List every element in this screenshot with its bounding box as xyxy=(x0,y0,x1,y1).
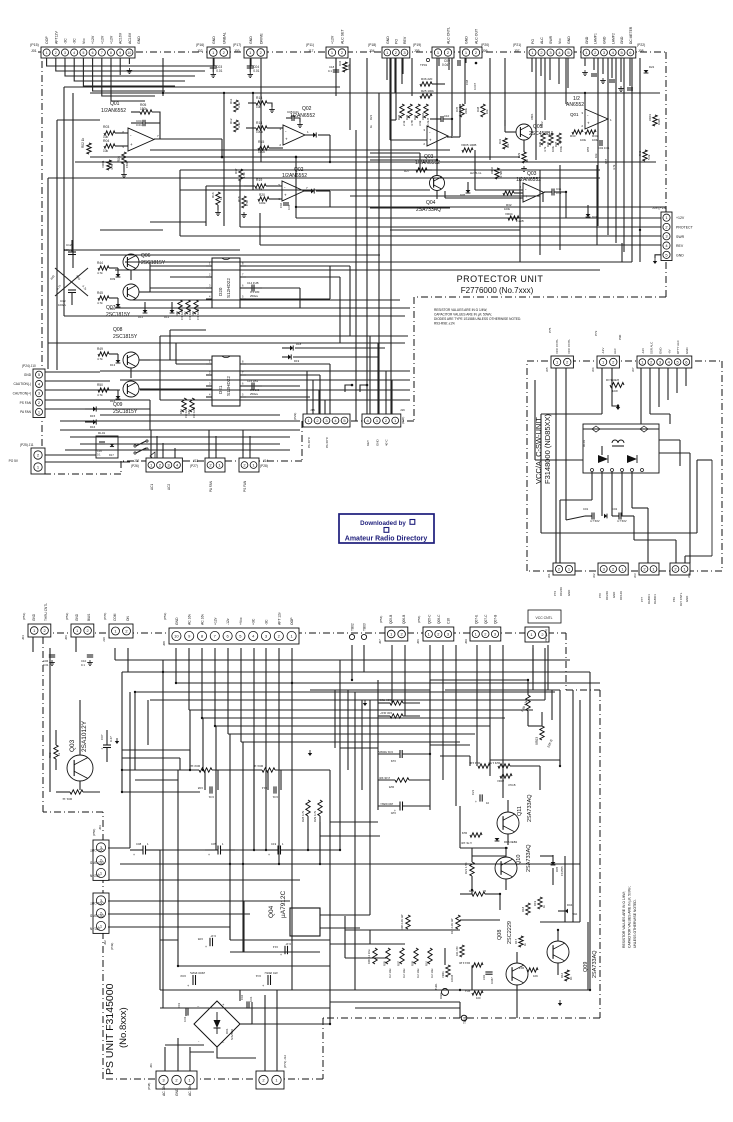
svg-text:1: 1 xyxy=(46,51,48,55)
svg-text:C19: C19 xyxy=(271,842,277,846)
svg-text:THRU CNTL: THRU CNTL xyxy=(44,603,48,621)
svg-text:C01: C01 xyxy=(583,507,589,511)
svg-text:RL8001: RL8001 xyxy=(647,594,651,604)
transistor Q09 2SC1815Y xyxy=(113,381,150,415)
connector J08 (P22) xyxy=(581,26,645,58)
thermistor TH01 D02A xyxy=(434,983,449,999)
op-amp Q02 1/2AN6552 lower xyxy=(278,167,308,201)
svg-text:160wv: 160wv xyxy=(64,248,73,252)
svg-text:GND: GND xyxy=(75,613,79,621)
svg-text:0.01 500Wv: 0.01 500Wv xyxy=(377,750,393,754)
capacitor C21 10 xyxy=(471,789,490,805)
svg-text:REV: REV xyxy=(403,36,407,44)
svg-text:C10: C10 xyxy=(444,114,450,118)
svg-text:R08 2.2K 1W: R08 2.2K 1W xyxy=(400,914,404,930)
svg-text:GND: GND xyxy=(585,36,589,44)
svg-text:(P30): (P30) xyxy=(401,417,405,424)
svg-text:0.047: 0.047 xyxy=(473,83,477,90)
svg-text:Q07-B: Q07-B xyxy=(494,615,498,624)
svg-text:40°C: 40°C xyxy=(385,438,389,446)
capacitor C05b 0.47 xyxy=(197,934,216,949)
svg-text:PA 60°C: PA 60°C xyxy=(325,436,329,448)
svg-text:(P54): (P54) xyxy=(379,616,383,623)
svg-text:0.2 10w: 0.2 10w xyxy=(388,969,392,978)
resistor R12 3.3k xyxy=(229,118,241,132)
ground arrow in vcc unit xyxy=(616,404,620,410)
additional ps vertical wires xyxy=(180,690,588,990)
wire Q01 output xyxy=(154,139,223,158)
svg-text:4.7B: 4.7B xyxy=(410,120,414,126)
resistor R13 2.2K xyxy=(459,961,483,967)
svg-text:Q07-C: Q07-C xyxy=(484,614,488,624)
resistor R36 220 xyxy=(420,77,445,86)
transistor Q03 2SA1012Y xyxy=(67,700,93,790)
capacitor C04 0.01 feedback xyxy=(131,119,160,127)
resistor R01 1k xyxy=(56,790,100,801)
resistor R19 1k xyxy=(533,897,546,909)
svg-text:GND: GND xyxy=(603,36,607,44)
svg-text:0.47: 0.47 xyxy=(109,736,113,742)
wires around J10 J11 xyxy=(45,372,300,462)
svg-text:J01: J01 xyxy=(149,1063,153,1068)
resistor R22 4.7K 1W xyxy=(461,831,482,845)
svg-text:R15: R15 xyxy=(518,966,524,970)
wires middle band xyxy=(48,266,410,400)
svg-text:AC2: AC2 xyxy=(167,484,171,490)
svg-text:(P56): (P56) xyxy=(417,616,421,623)
svg-text:Q06: Q06 xyxy=(141,253,151,259)
svg-text:P75: P75 xyxy=(548,327,552,333)
svg-text:150k: 150k xyxy=(140,107,147,111)
svg-text:GND: GND xyxy=(24,373,32,377)
svg-text:+: + xyxy=(205,945,207,949)
svg-text:Q03: Q03 xyxy=(69,739,76,752)
resistor R06 150k to ground xyxy=(117,152,129,177)
svg-text:100wv: 100wv xyxy=(58,303,67,307)
svg-text:Q08-C: Q08-C xyxy=(437,614,441,624)
svg-text:J04: J04 xyxy=(21,635,25,640)
diode D10 xyxy=(110,298,120,311)
svg-text:PROTECTOR UNIT: PROTECTOR UNIT xyxy=(457,274,544,284)
svg-text:Q01-OUT: Q01-OUT xyxy=(90,901,104,905)
svg-text:VR04: VR04 xyxy=(505,212,513,216)
svg-text:0.1: 0.1 xyxy=(328,69,332,73)
connector J02 (P16) xyxy=(196,32,230,58)
svg-text:R29 4.7k: R29 4.7k xyxy=(313,810,317,822)
svg-text:10k: 10k xyxy=(594,153,598,158)
svg-text:R38: R38 xyxy=(476,106,480,112)
resistor R20 100k xyxy=(258,193,282,205)
svg-text:LAMP1: LAMP1 xyxy=(594,33,598,44)
resistor cluster R22-R24 VR02 VR03 near x405 xyxy=(397,104,430,126)
svg-text:+: + xyxy=(394,809,396,813)
svg-text:1/2AN6552: 1/2AN6552 xyxy=(282,173,307,179)
svg-text:Q01-IN: Q01-IN xyxy=(89,926,100,930)
svg-text:9: 9 xyxy=(119,51,121,55)
ground arrows ps xyxy=(308,700,562,1006)
svg-text:D09: D09 xyxy=(110,277,116,281)
svg-text:10: 10 xyxy=(128,51,132,55)
svg-text:100k: 100k xyxy=(347,63,351,70)
relay RL01 with capacitor C16 xyxy=(96,431,118,458)
svg-text:D01: D01 xyxy=(225,1028,229,1034)
diode D14 xyxy=(110,390,120,403)
svg-text:PS FAN: PS FAN xyxy=(20,401,32,405)
connector J14 (P28) xyxy=(239,458,268,492)
resistor VR06 4.7kB xyxy=(490,167,503,179)
hook jumpers near J15 xyxy=(345,384,368,392)
svg-text:0.47: 0.47 xyxy=(210,934,216,938)
svg-text:2SC1815Y: 2SC1815Y xyxy=(141,260,166,266)
regulator Q04 uA7912C xyxy=(268,890,320,936)
svg-text:D16: D16 xyxy=(90,425,96,429)
resistor R31 10k xyxy=(498,138,510,149)
svg-text:C08: C08 xyxy=(136,842,142,846)
svg-text:J10: J10 xyxy=(102,637,106,642)
svg-text:R35: R35 xyxy=(455,106,459,112)
resistor R02 1k xyxy=(48,730,61,770)
svg-text:R7/132E'8: R7/132E'8 xyxy=(606,378,619,382)
svg-text:J17: J17 xyxy=(308,49,314,53)
svg-text:GND: GND xyxy=(175,617,179,625)
resistor R20 1K xyxy=(460,889,500,896)
svg-text:C12: C12 xyxy=(66,243,72,247)
resistor R21 1.5K xyxy=(464,848,474,890)
svg-text:0.01: 0.01 xyxy=(249,996,253,1002)
svg-text:R56: R56 xyxy=(550,130,554,136)
svg-text:C22: C22 xyxy=(390,759,396,763)
connector J11 ps (P75) with VCC CNTL box xyxy=(525,610,561,642)
svg-text:GND: GND xyxy=(612,592,616,598)
svg-text:+12V: +12V xyxy=(110,35,114,44)
svg-text:DC24V: DC24V xyxy=(605,591,609,600)
resistor R11 150 xyxy=(455,945,464,957)
svg-text:Q02: Q02 xyxy=(302,106,312,112)
svg-text:Q01-GND: Q01-GND xyxy=(89,914,104,918)
svg-text:AC1: AC1 xyxy=(150,484,154,490)
svg-text:R22: R22 xyxy=(397,114,401,120)
svg-text:VCC CNTL: VCC CNTL xyxy=(567,339,571,354)
svg-text:PA FAN: PA FAN xyxy=(209,480,213,492)
resistor R03 1k xyxy=(190,764,212,772)
connector J08 ps (P53) 10pin xyxy=(162,612,299,646)
svg-text:150k: 150k xyxy=(125,161,129,168)
ps bus wires horizontal xyxy=(108,660,600,1024)
svg-text:PA 40°C: PA 40°C xyxy=(307,436,311,448)
svg-text:330k: 330k xyxy=(464,107,468,114)
svg-text:Q09: Q09 xyxy=(113,402,123,408)
resistor R11 3.3k xyxy=(229,98,241,112)
svg-text:GND: GND xyxy=(32,613,36,621)
ps notes text vertical xyxy=(622,886,637,948)
svg-text:J14: J14 xyxy=(263,459,268,463)
resistor R27 2.2k xyxy=(404,168,432,173)
capacitor C02 0.01 xyxy=(598,140,610,150)
svg-text:R09: R09 xyxy=(411,961,415,966)
connector J06b ps (P56) xyxy=(416,614,454,644)
connector J07 ps (P54) xyxy=(378,615,408,644)
svg-text:8: 8 xyxy=(110,51,112,55)
svg-text:R04: R04 xyxy=(103,139,109,143)
connector J12 (P26) xyxy=(131,458,182,490)
svg-text:6: 6 xyxy=(92,51,94,55)
svg-text:J01: J01 xyxy=(31,49,37,53)
wire bus under opamps xyxy=(206,135,330,226)
svg-text:+12V: +12V xyxy=(100,35,104,44)
svg-text:Vcc: Vcc xyxy=(82,38,86,44)
svg-text:0.1: 0.1 xyxy=(97,453,101,457)
connector J06 ps (P52) xyxy=(64,613,94,640)
resistor R17 1k xyxy=(514,936,527,947)
connector J11 (P25) xyxy=(9,443,45,474)
svg-text:GND: GND xyxy=(212,36,216,44)
extra ps buses xyxy=(160,690,560,958)
connector J04 vcc bottom xyxy=(670,563,691,606)
svg-text:J07: J07 xyxy=(378,639,382,644)
connector J16 (P30) xyxy=(362,408,405,446)
capacitor C09 0.047 under J06 xyxy=(442,58,477,67)
svg-text:R40: R40 xyxy=(546,141,550,147)
svg-text:RL01: RL01 xyxy=(98,431,106,435)
svg-text:PA FAN: PA FAN xyxy=(20,410,32,414)
terminals TB02 TB03 xyxy=(349,623,366,639)
resistor R02 1k xyxy=(81,137,91,154)
connector J05 (P19) with test point TP01 xyxy=(413,27,454,67)
svg-text:D22: D22 xyxy=(649,65,655,69)
svg-text:VR06: VR06 xyxy=(490,167,494,174)
svg-text:2SA733AQ: 2SA733AQ xyxy=(527,794,533,822)
svg-text:R17: R17 xyxy=(234,168,238,174)
svg-text:+: + xyxy=(475,800,477,804)
svg-text:10k: 10k xyxy=(506,143,510,148)
svg-text:R29: R29 xyxy=(517,152,521,158)
svg-text:100-B: 100-B xyxy=(450,975,454,982)
svg-text:D13: D13 xyxy=(110,363,116,367)
svg-text:1/2AN6552: 1/2AN6552 xyxy=(101,108,126,114)
connector J17 (P11) xyxy=(306,29,348,58)
resistor stubs under J04 J05 xyxy=(387,58,449,93)
svg-text:TP01: TP01 xyxy=(420,63,428,67)
svg-text:GND: GND xyxy=(659,348,663,354)
svg-text:+Vcc: +Vcc xyxy=(239,617,243,625)
svg-text:R52: R52 xyxy=(187,409,191,414)
svg-text:RD5.6EB2: RD5.6EB2 xyxy=(504,840,518,844)
svg-text:2.2K 3W: 2.2K 3W xyxy=(379,776,390,780)
svg-text:J03: J03 xyxy=(633,573,637,578)
label VR05 100B cluster small resistors x536-560 xyxy=(538,133,563,152)
svg-text:J16: J16 xyxy=(400,408,405,412)
svg-text:J09: J09 xyxy=(464,639,468,644)
resistor R49 4.7k xyxy=(97,347,118,361)
svg-text:R19: R19 xyxy=(533,900,537,906)
svg-text:1k: 1k xyxy=(57,752,61,756)
svg-text:R05: R05 xyxy=(383,961,387,966)
capacitor C22 0.01 500Wv xyxy=(377,750,430,763)
svg-text:J06: J06 xyxy=(591,367,595,372)
capacitor C11 470 35Wv xyxy=(255,971,278,988)
svg-text:R57: R57 xyxy=(604,158,608,164)
svg-text:R21: R21 xyxy=(369,114,373,120)
svg-text:AC 16v: AC 16v xyxy=(188,614,192,625)
svg-text:R20: R20 xyxy=(259,193,265,197)
svg-text:PO: PO xyxy=(531,39,535,44)
capacitor C08b electrolytic xyxy=(130,842,160,857)
capacitor C03 0.01 under J02 xyxy=(210,58,223,77)
svg-text:TB01: TB01 xyxy=(463,1016,467,1024)
svg-text:P77: P77 xyxy=(640,597,644,602)
connector J07 (P21) xyxy=(513,35,574,58)
svg-text:DC12V: DC12V xyxy=(619,591,623,600)
svg-text:P90: P90 xyxy=(618,334,622,340)
svg-text:2SC1815Y: 2SC1815Y xyxy=(113,409,138,415)
resistors R08 R12 2.2K 1W xyxy=(400,914,460,934)
diodes D15 D16 near J10 xyxy=(85,406,96,429)
resistor R04 1k xyxy=(253,764,275,772)
long vertical wires center of protector unit xyxy=(356,58,391,421)
svg-text:AFT 12v: AFT 12v xyxy=(277,612,281,625)
diode bridge D01 S4VB10 xyxy=(194,1001,240,1047)
extra ps verticals xyxy=(345,648,573,990)
svg-text:Q08: Q08 xyxy=(113,327,123,333)
resistor R19 100k xyxy=(244,178,282,191)
svg-text:(P52): (P52) xyxy=(65,613,69,620)
op-amp Q01 1/2 AN6552 right xyxy=(566,96,612,129)
resistor R29 1k emitter xyxy=(517,152,529,171)
capacitor C04 0.01 under J03 xyxy=(247,58,260,77)
svg-text:H215-1L: H215-1L xyxy=(470,171,482,175)
svg-text:KEY: KEY xyxy=(366,440,370,446)
IC D21 S12HD22 xyxy=(206,356,246,406)
ps center junction dots 2 xyxy=(162,671,293,865)
svg-text:R48: R48 xyxy=(191,311,195,316)
svg-text:VR05 100B: VR05 100B xyxy=(461,143,476,147)
connector J04 (P18) xyxy=(368,36,410,58)
svg-text:V801: V801 xyxy=(530,113,534,120)
ground at J09 pin5 xyxy=(653,255,661,264)
svg-text:1S1555: 1S1555 xyxy=(560,866,564,876)
svg-text:VR03: VR03 xyxy=(535,737,539,745)
svg-text:ALC CNTL: ALC CNTL xyxy=(447,27,451,44)
svg-text:250wv: 250wv xyxy=(250,294,259,298)
long column wires ps center xyxy=(50,648,292,1008)
svg-text:2SA1012Y: 2SA1012Y xyxy=(81,720,88,752)
svg-text:CAPACITOR VALUES ARE IN µF, 50: CAPACITOR VALUES ARE IN µF, 50Wv; xyxy=(434,313,492,317)
svg-text:Q08: Q08 xyxy=(497,930,503,940)
connector J12 ps bottom (P73) xyxy=(256,1055,287,1089)
svg-text:3: 3 xyxy=(64,51,66,55)
svg-text:R44: R44 xyxy=(97,261,103,265)
PS unit dashed border xyxy=(43,633,600,1079)
resistor R23 1.5K xyxy=(488,761,510,768)
svg-text:Q06-B: Q06-B xyxy=(402,615,406,624)
svg-text:R39: R39 xyxy=(538,141,542,147)
svg-text:CAUTION(-): CAUTION(-) xyxy=(13,382,31,386)
svg-text:5.6k: 5.6k xyxy=(647,154,651,160)
title PS UNIT F3145000 vertical xyxy=(104,983,129,1075)
svg-text:R25: R25 xyxy=(388,785,394,789)
svg-text:(No.8xxx): (No.8xxx) xyxy=(118,1007,129,1048)
pot VR03 22K-B xyxy=(528,712,554,748)
svg-text:GND: GND xyxy=(137,36,141,44)
svg-text:+: + xyxy=(101,747,103,751)
svg-text:R25 100k: R25 100k xyxy=(421,89,434,93)
resistor R? 10W xyxy=(606,378,624,393)
svg-text:SWR: SWR xyxy=(549,35,553,44)
resistor R14 100k xyxy=(246,121,283,134)
svg-text:100k: 100k xyxy=(259,201,266,205)
svg-text:VCC CNTL: VCC CNTL xyxy=(555,339,559,354)
svg-text:C11: C11 xyxy=(255,974,261,978)
svg-text:1K: 1K xyxy=(569,976,573,980)
lower horizontal buses right area xyxy=(100,222,632,270)
svg-text:(P22): (P22) xyxy=(637,43,645,47)
svg-text:OOP: OOP xyxy=(45,36,49,44)
svg-text:DRIVE: DRIVE xyxy=(259,33,263,44)
svg-text:GND: GND xyxy=(685,348,689,354)
svg-text:(P18): (P18) xyxy=(368,43,376,47)
capacitor C10 0.1 under J06 xyxy=(76,637,93,667)
connector J10 (P24) xyxy=(13,364,45,418)
svg-text:AC16V: AC16V xyxy=(128,32,132,44)
svg-text:Q02-IN: Q02-IN xyxy=(89,873,100,877)
watermark box Downloaded by Amateur Radio Directory xyxy=(339,514,434,543)
svg-text:220: 220 xyxy=(558,139,562,144)
svg-text:100k: 100k xyxy=(258,150,265,154)
transistor Q06 2SC1815Y xyxy=(123,253,166,280)
svg-text:(P28): (P28) xyxy=(260,464,268,468)
resistor R30 12K xyxy=(520,680,530,726)
svg-text:C01: C01 xyxy=(177,1002,181,1008)
diode D03 xyxy=(304,188,330,193)
capacitor C07 0.47 xyxy=(100,730,119,762)
svg-text:10kB: 10kB xyxy=(657,118,661,125)
resistor R15 100k xyxy=(258,140,283,154)
svg-text:R24 12K: R24 12K xyxy=(469,761,480,765)
svg-text:C07: C07 xyxy=(100,734,104,740)
crossed resistors R42 R43 4.7k xyxy=(50,268,88,296)
svg-text:AFT12V: AFT12V xyxy=(54,30,58,44)
capacitor C10 0.1 xyxy=(430,114,452,136)
svg-text:RLY CNTL: RLY CNTL xyxy=(679,592,683,606)
svg-text:10K: 10K xyxy=(533,974,538,978)
resistor R33 100k xyxy=(570,130,587,142)
svg-text:R23: R23 xyxy=(405,114,409,120)
resistor R06 330 xyxy=(367,948,377,964)
svg-text:1.5k: 1.5k xyxy=(245,200,249,206)
svg-text:J07: J07 xyxy=(631,367,635,372)
diode D04 70Q xyxy=(558,903,577,916)
svg-text:REV: REV xyxy=(676,244,684,248)
capacitor C08 0.01 xyxy=(197,786,214,799)
transistor Q09 2SA733AQ xyxy=(547,930,598,978)
protector unit dashed border xyxy=(38,52,666,474)
diode D11 xyxy=(138,302,147,319)
svg-text:1K: 1K xyxy=(482,889,486,893)
svg-text:ALC SET: ALC SET xyxy=(341,29,345,44)
svg-text:R12 2.2K 1W: R12 2.2K 1W xyxy=(450,918,454,934)
svg-text:Q05-B: Q05-B xyxy=(389,615,393,624)
svg-text:DC24V: DC24V xyxy=(559,587,563,596)
svg-text:J03: J03 xyxy=(234,49,240,53)
pot VR01 100-B xyxy=(441,965,454,982)
svg-text:J04: J04 xyxy=(369,49,375,53)
svg-text:GND: GND xyxy=(567,590,571,596)
svg-text:(P73) J12: (P73) J12 xyxy=(283,1055,287,1068)
svg-text:7: 7 xyxy=(101,51,103,55)
svg-text:0.2 10w: 0.2 10w xyxy=(430,969,434,978)
svg-text:100k: 100k xyxy=(504,207,511,211)
transistor Q10 2SA733AQ xyxy=(495,844,532,890)
